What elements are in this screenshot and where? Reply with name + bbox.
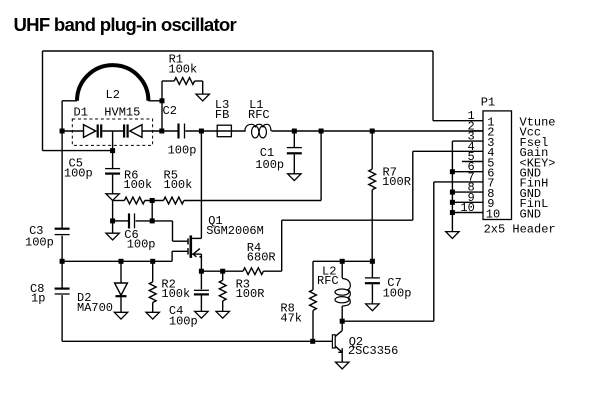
label pin number 6 outside [468,160,475,174]
varactor D1a triangle [84,125,96,138]
label pin number 5 inside [487,156,494,170]
node R8 base junction [310,339,315,344]
ground under GND bus [446,232,459,239]
svg-text:100p: 100p [169,315,198,329]
svg-text:RFC: RFC [248,108,270,122]
wire R8 top lead [312,261,314,290]
capacitor C3 [55,229,70,235]
wire P1 pin 4 lead [413,150,483,152]
wire arc left lead [62,100,77,102]
wire C5 top lead [112,151,114,169]
node arc right junction [160,98,165,103]
ground under R3 [216,311,229,318]
wire C6 ground stem [112,221,114,233]
wire R2 top lead [152,261,154,282]
wire P1 pin 3 lead [452,140,483,142]
inductor L2 arc [77,65,148,101]
wire base rail [62,340,332,342]
wire left column middle [61,236,63,288]
wire varactor mid-node drop [112,131,114,151]
wire arc left column [61,101,63,131]
wire gate 1 riser [171,251,173,261]
label C7 [387,276,401,290]
svg-text:100p: 100p [255,158,284,172]
node C6 left junction [110,218,115,223]
transistor Q1 gate bars [187,238,189,254]
label R6 value 100k [123,178,152,192]
capacitor C8 [55,289,70,294]
svg-text:100p: 100p [64,167,93,181]
wire R7 top lead [371,131,373,169]
label Q2 type 2SC3356 [348,344,398,358]
wire L2 RFC top lead [341,261,343,278]
label pin 3 signal Fsel [520,136,549,150]
label C6 value 100p [127,237,156,251]
svg-text:100k: 100k [123,178,152,192]
label C4 value 100p [169,315,198,329]
svg-text:D1: D1 [74,106,88,120]
node bus pin 6 [450,169,455,174]
label L3 type FB [215,108,229,122]
wire C5 bottom lead [112,175,114,194]
label L3 [215,98,229,112]
wire C2 to L3 [185,130,245,132]
label pin number 4 outside [468,140,475,154]
wire Q2 collector diagonal [335,331,342,337]
svg-text:100k: 100k [161,287,190,301]
label L2 RFC [322,265,336,279]
label pin number 8 inside [487,187,494,201]
svg-text:2SC3356: 2SC3356 [348,344,398,358]
wire gate 1 rail [62,260,172,262]
wire R3 ground stem [222,301,224,312]
label pin number 5 outside [468,150,475,164]
label C1 [260,146,274,160]
label C7 value 100p [383,287,412,301]
wire GND bus [451,141,453,232]
wire P1 pin 6 lead [452,171,483,173]
wire D2 top lead [120,261,122,283]
wire R6-R5 junction drop to C6 [151,201,153,221]
label pin number 3 inside [487,136,494,150]
wire gate 2 lead [173,240,188,242]
svg-text:10: 10 [486,207,500,221]
svg-text:FB: FB [215,108,229,122]
svg-text:10: 10 [460,201,474,215]
wire Q2 collector riser [341,321,343,330]
label Q2 [349,335,363,349]
svg-text:L2: L2 [106,88,120,102]
resistor R1 [174,78,194,85]
label pin 8 signal GND [520,187,542,201]
capacitor C5 [105,169,120,174]
svg-text:C2: C2 [163,104,177,118]
wire R4 riser [281,220,283,271]
node bus pin 8 [450,190,455,195]
wire R6 row drop [112,201,114,221]
inductor L2 RFC petal 2 [335,297,349,303]
label R7 value 100R [382,175,411,189]
wire between varactors left [102,130,123,132]
dashed box around D1 [72,119,152,145]
label C8 value 1p [31,292,45,306]
label L1 [249,98,263,112]
node main row left junction [60,129,65,134]
wire C4 ground stem [200,296,202,312]
capacitor C1 [287,148,302,154]
ground under R1 [196,94,209,101]
label C2 value 100p [168,143,197,157]
label pin number 9 inside [487,197,494,211]
inductor L1 petal 1 [252,126,259,138]
node bus pin 9 [450,200,455,205]
ground under C1 [288,174,301,181]
svg-text:47k: 47k [280,312,302,326]
transistor Q1 source arrow [193,249,201,258]
label R5 [164,169,178,183]
label pin 4 signal Gain [520,146,549,160]
inductor L2 RFC bumps [342,279,350,307]
wire R1 right lead [195,80,203,82]
svg-text:100R: 100R [236,287,265,301]
label pin number 10 outside [460,201,474,215]
label R4 value 680R [247,251,276,265]
wire Q1 source lead [192,253,201,255]
label R6 [124,169,138,183]
label pin number 6 inside [487,167,494,181]
inductor L2 RFC petal 1 [335,289,349,295]
label C2 [163,104,177,118]
varactor D1b cathode bars [124,124,128,137]
wire Vtune net right drop to P1 pin 1 [432,51,434,121]
wire Vtune net left drop [42,51,44,151]
wire R6 left lead [113,200,125,202]
diode D2 cathode bar [116,295,127,297]
resistor R3 [219,280,226,301]
wire R8 bottom lead [312,310,314,341]
capacitor C2 [179,124,185,139]
svg-text:1p: 1p [31,292,45,306]
wire R3 top lead [222,271,224,280]
wire source row [201,270,243,272]
wire FinH riser [433,182,435,321]
ground under C7 [366,304,379,311]
node drain column junction [199,129,204,134]
svg-text:SGM2006M: SGM2006M [206,224,264,238]
svg-text:GND: GND [520,207,542,221]
svg-text:P1: P1 [481,96,495,110]
diode D2 triangle [115,283,128,295]
label R7 [383,166,397,180]
label R2 [161,278,175,292]
varactor D1a cathode bars [98,124,102,137]
label R8 value 47k [280,312,302,326]
label R3 [236,278,250,292]
wire C6 left lead [113,220,128,222]
wire left column upper [61,131,63,228]
ground under Q2 [336,362,349,369]
label pin number 9 outside [468,191,475,205]
resistor R5 [164,197,184,204]
wire P1 pin 9 lead [452,201,483,203]
label pin number 7 outside [468,170,475,184]
node C6 right junction [150,218,155,223]
label Q1 type SGM2006M [206,224,264,238]
wire P1 pin 10 lead [452,212,483,214]
resistor R7 [369,169,376,190]
node oscillator output junction [159,129,164,134]
label pin 9 signal FinL [520,197,549,211]
ground under C6 node [106,233,119,240]
label C8 [30,282,44,296]
wire R5 right lead [184,200,321,202]
wire L1 to header pin 2 Vcc [271,130,483,132]
node Q1 source junction [199,269,204,274]
resistor R2 [149,282,156,303]
label pin 5 signal <KEY> [520,156,556,170]
wire P1 pin 8 lead [452,191,483,193]
wire P1 pin 5 stub [462,161,483,163]
node C7 top junction [370,259,375,264]
wire FinH horizontal [342,320,434,322]
wire Q1 drain riser [200,131,202,238]
svg-text:100k: 100k [168,62,197,76]
wire Q1 source drop [200,254,202,271]
svg-text:100R: 100R [382,175,411,189]
label C1 value 100p [255,158,284,172]
label C3 value 100p [25,236,54,250]
label C3 [29,224,43,238]
wire R7 bottom lead [371,190,373,262]
node R7 top junction [370,129,375,134]
label L2 RFC type [317,274,339,288]
wire gate 1 lead [172,250,187,252]
label pin 6 signal GND [520,167,542,181]
wire C1 top lead [293,131,295,148]
wire R4 right lead [263,270,281,272]
transistor Q1 channel bar [190,235,193,258]
label D1 [74,106,88,120]
label D2 type MA700 [77,301,113,315]
label pin number 7 inside [487,177,494,191]
label R3 value 100R [236,287,265,301]
label pin number 3 outside [468,130,475,144]
wire R1 left lead up [161,81,163,101]
node Q2 collector junction [340,319,345,324]
wire C7 top lead [371,261,373,278]
wire C6 to gate 2 drop [172,221,174,241]
node L2 RFC top junction [340,259,345,264]
wire arc right lead [148,100,162,102]
svg-text:100p: 100p [383,287,412,301]
label R8 [280,302,294,316]
wire Vtune net bottom [43,150,113,152]
connector P1 box [483,111,512,220]
svg-text:HVM15: HVM15 [104,106,140,120]
label R4 [247,241,261,255]
label R1 [169,53,183,67]
wire C4 top lead [200,271,202,289]
resistor R4 [243,268,263,275]
node R2 junction [150,259,155,264]
label pin number 2 inside [487,126,494,140]
inductor L1 petal 2 [259,126,266,138]
node C1 junction [292,129,297,134]
capacitor C4 [194,290,209,294]
node rail-left column junction [60,259,65,264]
node Vtune to varactor mid junction [110,148,115,153]
label pin 10 signal GND [520,207,542,221]
svg-text:RFC: RFC [317,274,339,288]
svg-text:2x5 Header: 2x5 Header [484,223,556,237]
wire C1 bottom lead [293,154,295,173]
wire Gain net riser [412,151,414,220]
varactor D1b triangle [130,125,142,138]
title text [14,14,237,35]
capacitor C6 [129,213,135,228]
label C5 [69,157,83,171]
label 2x5 Header [484,223,556,237]
label Q1 [208,214,222,228]
ground arrow at R6 left [106,194,119,201]
label C6 [124,228,138,242]
wire Q2 emitter diagonal [335,346,342,352]
svg-text:680R: 680R [247,251,276,265]
wire varactor D1b to C2 [142,130,178,132]
label R2 value 100k [161,287,190,301]
wire arc node drop to row [161,101,163,131]
label C4 [169,304,183,318]
label pin number 10 inside [486,207,500,221]
wire R1 left lead [162,80,174,82]
label pin 2 signal Vcc [520,126,542,140]
node R5 feed junction [319,129,324,134]
label D2 [77,291,91,305]
node D2 junction [119,259,124,264]
wire Q2 emitter drop [341,352,343,362]
ground under R2 [146,312,159,319]
label R5 value 100k [164,178,193,192]
capacitor C7 [365,278,380,283]
wire Vtune net top [43,50,434,52]
ferrite bead L3 box [217,125,231,137]
resistor R8 [310,290,317,311]
wire P1 pin 2 lead [472,130,483,132]
label R1 value 100k [168,62,197,76]
label pin number 2 outside [468,119,475,133]
svg-text:100k: 100k [164,178,193,192]
transistor Q2 emitter arrow [338,348,342,352]
svg-text:100p: 100p [25,236,54,250]
resistor R6 [124,197,144,204]
wire R2 ground stem [152,303,154,313]
wire C6 right lead [136,220,173,222]
ground under D2 [114,312,127,319]
wire Q1 drain lead [192,237,201,239]
label pin number 8 outside [468,181,475,195]
label pin number 4 inside [487,146,494,160]
wire C7 ground stem [371,284,373,304]
label L2 arc [106,88,120,102]
label L1 type RFC [248,108,270,122]
inductor L1 bumps [245,124,271,131]
wire main row left segment [62,130,83,132]
svg-text:UHF band plug-in oscillator: UHF band plug-in oscillator [14,14,237,35]
svg-text:100p: 100p [168,143,197,157]
transistor Q2 base bar [332,335,335,348]
label pin 7 signal FinH [520,177,549,191]
node R3 junction [220,269,225,274]
ground under C4 [195,311,208,318]
wire P1 pin 7 lead [434,181,483,183]
node R6-R5 junction [150,198,155,203]
wire R6-R5 junction lead [145,200,164,202]
label D1 type HVM15 [104,106,140,120]
label pin number 1 outside [468,109,475,123]
label C5 value 100p [64,167,93,181]
wire R5 feed riser [320,131,322,201]
wire P1 pin 1 lead [433,120,483,122]
svg-text:100p: 100p [127,237,156,251]
label pin number 1 inside [487,116,494,130]
label P1 [481,96,495,110]
wire left column lower [61,295,63,341]
wire Gain net horizontal [282,219,413,221]
node bus pin 10 [450,210,455,215]
wire L2 RFC bottom lead [341,306,343,321]
svg-text:MA700: MA700 [77,301,113,315]
wire R1 ground drop [202,81,204,94]
wire D2 ground stem [120,297,122,312]
label pin 1 signal Vtune [520,116,556,130]
wire node row [313,260,372,262]
